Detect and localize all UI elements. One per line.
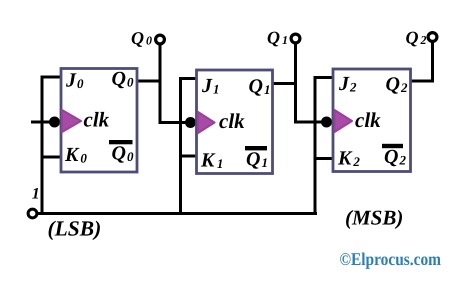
wire K1 input stub (179, 155, 197, 158)
overbar Q1 (245, 146, 267, 150)
wire K2 input stub (314, 157, 334, 160)
svg-text:clk: clk (355, 108, 381, 132)
wire clock input to U0 clk (31, 121, 60, 124)
wire Q2 output (411, 80, 435, 83)
terminal Q1 circle (291, 34, 300, 43)
svg-text:(LSB): (LSB) (48, 217, 102, 241)
clk triangle U2 (335, 110, 353, 132)
svg-text:1: 1 (32, 186, 40, 203)
junction dot U0 clk (49, 117, 60, 128)
svg-text:(MSB): (MSB) (345, 206, 403, 230)
clk triangle U0 (62, 110, 81, 132)
wire JK tie FF1 vertical (179, 77, 182, 215)
wire J0 input stub (41, 76, 62, 79)
overbar Q0 (109, 140, 133, 144)
wire Q0 to U1 clk (159, 121, 197, 124)
wire Q2 stem vertical (431, 42, 434, 83)
flip-flop U1 box (197, 70, 273, 174)
terminal input 1 circle (28, 209, 37, 218)
svg-text:clk: clk (84, 108, 110, 132)
junction dot U1 clk (185, 117, 196, 128)
wire Q0 output (137, 80, 162, 83)
junction dot U2 clk (321, 117, 332, 128)
wire Q0 stem vertical (159, 44, 162, 124)
wire Q1 output (273, 82, 298, 85)
svg-text:©Elprocus.com: ©Elprocus.com (340, 249, 442, 269)
wire bottom logic-1 bus (36, 212, 317, 215)
svg-text:clk: clk (219, 109, 245, 133)
clk triangle U1 (198, 112, 215, 133)
wire Q1 stem vertical (294, 43, 297, 124)
wire JK tie FF2 vertical (314, 76, 317, 215)
terminal Q0 circle (156, 35, 165, 44)
wire K0 input stub (41, 156, 62, 159)
terminal Q2 circle (428, 33, 437, 42)
wire JK tie FF0 vertical (41, 76, 44, 216)
wire J2 input stub (314, 76, 334, 79)
wire J1 input stub (179, 77, 197, 80)
wire Q1 to U2 clk (294, 121, 333, 124)
flip-flop U0 box (61, 69, 137, 173)
flip-flop U2 box (333, 69, 411, 172)
overbar Q2 (382, 144, 403, 148)
